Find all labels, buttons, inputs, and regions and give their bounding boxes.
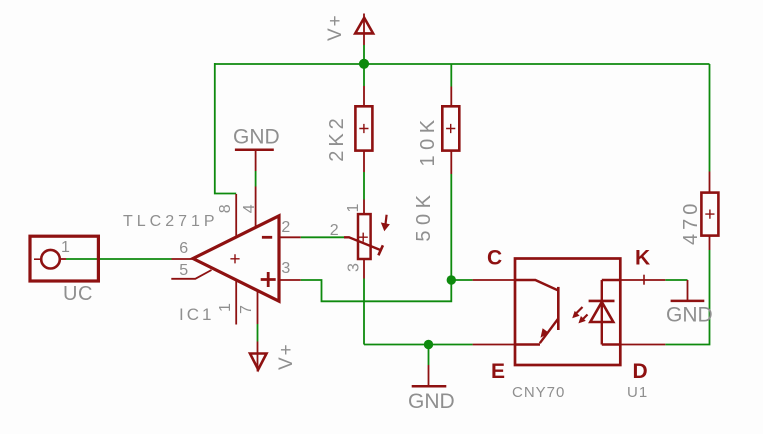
wire 10K bottom drop — [450, 174, 452, 280]
junction dot V+ rail — [359, 59, 369, 69]
ground symbol top GND — [235, 149, 274, 171]
pin 8 — [235, 194, 237, 237]
potentiometer 50K — [344, 200, 387, 279]
resistor R2 10K — [442, 87, 459, 175]
svg-text:C: C — [487, 247, 502, 270]
pin K — [620, 279, 665, 281]
connector UC — [30, 236, 98, 281]
wire E node to GND — [428, 345, 430, 366]
pin 7 — [257, 291, 259, 324]
pin 4 — [255, 187, 257, 228]
svg-text:7: 7 — [238, 305, 255, 314]
op-amp IC1 TLC271P — [171, 187, 300, 325]
wire UC to op-amp output — [66, 258, 172, 260]
svg-text:V+: V+ — [276, 342, 297, 370]
wiper — [344, 237, 381, 250]
svg-text:GND: GND — [666, 304, 713, 327]
light arrowhead 1 — [572, 311, 579, 318]
svg-text:6: 6 — [179, 240, 188, 257]
supply V+ top symbol — [355, 14, 373, 46]
wire 470 top to rail — [709, 64, 711, 172]
wire D row to 470 — [665, 250, 709, 345]
wire top rail V+ — [215, 63, 710, 65]
adjust arrow — [385, 215, 386, 225]
wire 10K top — [450, 64, 452, 87]
emitter arrowhead — [541, 328, 550, 338]
svg-text:CNY70: CNY70 — [512, 384, 565, 401]
LED diode — [601, 280, 603, 345]
wire pin 2 to pot wiper — [301, 236, 344, 238]
svg-text:IC1: IC1 — [179, 305, 214, 324]
wire pot bottom drop — [363, 279, 365, 345]
inverting input mark — [262, 236, 272, 239]
svg-text:K: K — [635, 247, 650, 270]
pin D — [620, 344, 665, 346]
svg-text:2K2: 2K2 — [326, 114, 348, 162]
light arrows — [577, 307, 583, 313]
pin 3 — [279, 279, 301, 281]
svg-text:4: 4 — [241, 204, 258, 213]
svg-text:U1: U1 — [627, 384, 648, 401]
wire K to right GND — [665, 279, 687, 281]
resistor R1 2K2 — [355, 86, 372, 172]
svg-text:V+: V+ — [325, 13, 346, 41]
ground symbol bottom GND — [412, 365, 447, 386]
svg-text:50K: 50K — [413, 190, 435, 242]
pin 1 — [235, 280, 237, 325]
ground symbol right GND — [671, 280, 705, 301]
svg-text:2: 2 — [330, 222, 339, 239]
svg-text:3: 3 — [346, 263, 363, 272]
svg-text:UC: UC — [63, 283, 93, 305]
light arrowhead 2 — [578, 316, 585, 323]
svg-text:470: 470 — [680, 200, 702, 245]
wire V+ symbol to rail — [363, 45, 365, 64]
wire 2K2 top — [363, 64, 365, 86]
resistor R3 470 — [701, 172, 718, 251]
pin 6 output — [172, 258, 194, 260]
pin 2 — [279, 236, 301, 238]
svg-text:TLC271P: TLC271P — [123, 213, 219, 230]
phototransistor — [515, 280, 558, 291]
junction node C row — [447, 275, 456, 284]
svg-text:5: 5 — [179, 262, 188, 279]
pin 5 — [171, 270, 211, 279]
pin C — [473, 279, 515, 281]
svg-text:3: 3 — [281, 260, 290, 277]
svg-text:1: 1 — [345, 204, 362, 213]
svg-text:10K: 10K — [417, 114, 439, 166]
svg-text:2: 2 — [281, 219, 290, 236]
wire left drop to pin 8 — [215, 63, 236, 194]
pin E — [473, 344, 515, 346]
svg-text:GND: GND — [408, 390, 455, 413]
svg-text:E: E — [491, 360, 505, 383]
svg-text:1: 1 — [217, 303, 234, 312]
origin cross — [230, 254, 239, 263]
svg-text:GND: GND — [233, 126, 280, 149]
wire pin 3 to 10K node — [301, 280, 452, 301]
wire node to C pin — [451, 279, 472, 281]
wire GND to pin 4 — [255, 171, 257, 187]
svg-text:D: D — [633, 360, 648, 383]
svg-text:8: 8 — [217, 204, 234, 213]
optocoupler U1 CNY70 — [473, 259, 666, 366]
supply V+ bottom symbol — [250, 342, 267, 372]
wire E row — [364, 344, 473, 346]
non-inverting input mark — [261, 272, 276, 287]
wire pin 7 to V+ — [257, 324, 259, 342]
svg-text:1: 1 — [61, 239, 70, 256]
junction node E row — [424, 340, 433, 349]
wire 2K2 to pot — [363, 172, 365, 200]
